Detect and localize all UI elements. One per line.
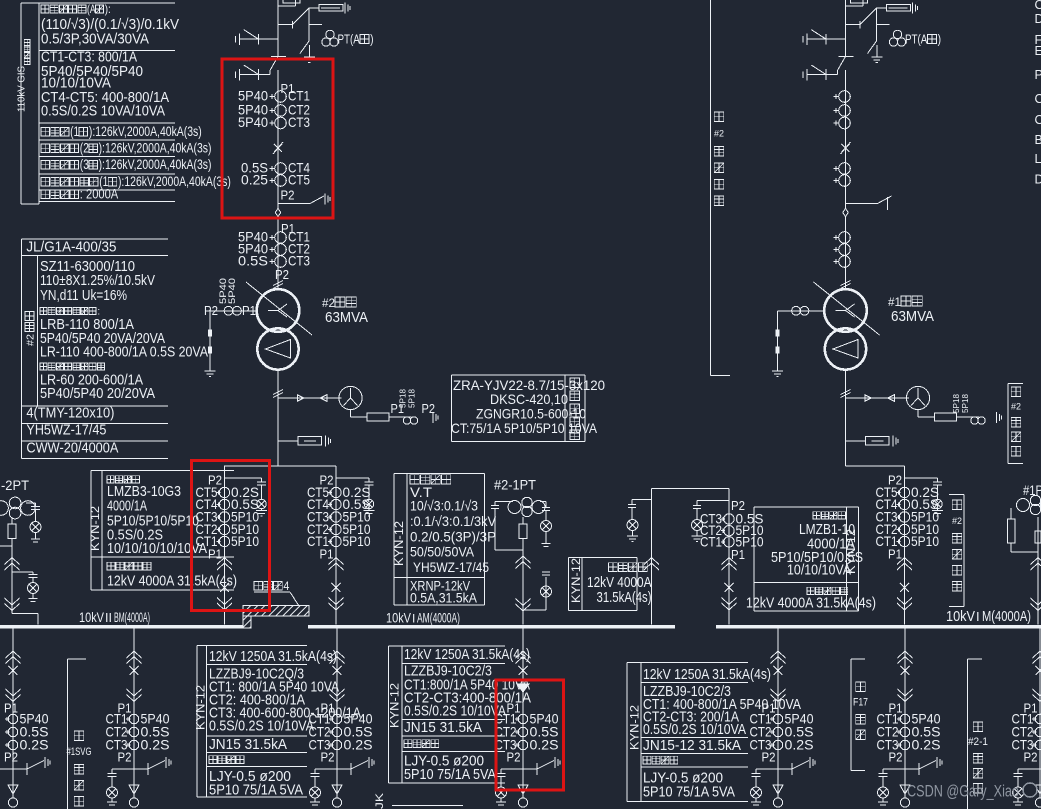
svg-text:5P40: 5P40	[238, 114, 268, 130]
svg-text:PT(A: PT(A	[338, 32, 361, 47]
svg-text::0.1/√3:0.1/3kV: :0.1/√3:0.1/3kV	[410, 513, 497, 529]
svg-text:12kV 1250A 31.5kA(4s): 12kV 1250A 31.5kA(4s)	[209, 649, 337, 665]
svg-text:63MVA: 63MVA	[325, 309, 368, 326]
svg-text:KYN-12: KYN-12	[390, 683, 402, 728]
svg-text:JL/G1A-400/35: JL/G1A-400/35	[26, 240, 116, 256]
svg-text:): )	[370, 32, 373, 47]
svg-text:P: P	[1035, 68, 1041, 82]
svg-text:CT3: CT3	[288, 253, 310, 269]
svg-text::: :	[97, 306, 100, 318]
svg-text:L: L	[1035, 152, 1041, 166]
svg-text:P2: P2	[118, 750, 132, 765]
svg-text:5P40: 5P40	[227, 278, 238, 304]
svg-text:10kV: 10kV	[79, 610, 104, 625]
svg-text:31.5kA(4s): 31.5kA(4s)	[597, 590, 652, 606]
svg-text:(1: (1	[70, 124, 79, 139]
svg-text:#2: #2	[1011, 402, 1021, 412]
svg-text:12kV 4000A 31.5kA(4s): 12kV 4000A 31.5kA(4s)	[746, 596, 876, 612]
svg-text:12kV 1250A 31.5kA(4s): 12kV 1250A 31.5kA(4s)	[404, 647, 530, 663]
svg-text:#2: #2	[25, 334, 37, 346]
svg-text:0.5A,31.5kA: 0.5A,31.5kA	[410, 590, 478, 606]
svg-text:110kV GIS: 110kV GIS	[16, 66, 28, 112]
svg-text:LR-110 400-800/1A 0.5S 20VA: LR-110 400-800/1A 0.5S 20VA	[40, 345, 208, 361]
svg-text:0.5S/0.2S 10VA/10VA: 0.5S/0.2S 10VA/10VA	[41, 103, 165, 119]
svg-text:(3: (3	[80, 157, 89, 172]
svg-text:#1: #1	[888, 295, 901, 309]
svg-text:F17: F17	[853, 697, 868, 709]
svg-text:P1: P1	[320, 547, 334, 562]
svg-text:YH5WZ-17/45: YH5WZ-17/45	[413, 559, 489, 575]
svg-text:-2PT: -2PT	[1, 478, 29, 493]
svg-text:0.5S/0.2S 10/10VA: 0.5S/0.2S 10/10VA	[643, 722, 746, 738]
svg-text:E: E	[1035, 44, 1041, 58]
svg-text:50/50/50VA: 50/50/50VA	[410, 544, 475, 560]
svg-text:0.5S: 0.5S	[238, 253, 268, 269]
svg-text:10/10/10VA: 10/10/10VA	[787, 563, 851, 579]
svg-text:CT3: CT3	[288, 114, 310, 130]
svg-text:5P10 75/1A 5VA: 5P10 75/1A 5VA	[643, 785, 735, 801]
svg-text:0.2S: 0.2S	[912, 737, 941, 753]
svg-text:YH5WZ-17/45: YH5WZ-17/45	[26, 423, 106, 439]
svg-text:BM(4000A): BM(4000A)	[114, 610, 150, 625]
svg-text:B: B	[1035, 133, 1041, 147]
svg-text:P1: P1	[208, 547, 222, 562]
svg-text:P1: P1	[4, 701, 18, 716]
svg-text:4000/1A: 4000/1A	[107, 499, 147, 515]
svg-text:JN15 31.5kA: JN15 31.5kA	[404, 720, 482, 736]
svg-text:10kV: 10kV	[946, 608, 975, 625]
svg-text:5P40/5P40 20/20VA: 5P40/5P40 20/20VA	[40, 386, 155, 402]
svg-text:CT5: CT5	[288, 172, 310, 188]
svg-text:5P18: 5P18	[407, 389, 417, 408]
svg-text:#2-1PT: #2-1PT	[494, 478, 536, 493]
svg-text:P2: P2	[1024, 750, 1038, 765]
svg-text:0.5S/0.2S 10/10VA: 0.5S/0.2S 10/10VA	[209, 719, 314, 735]
svg-text:P2: P2	[4, 750, 18, 765]
svg-text:YN,d11 Uk=16%: YN,d11 Uk=16%	[40, 288, 127, 304]
svg-text:4: 4	[283, 581, 290, 593]
svg-text:P2: P2	[321, 750, 335, 765]
svg-text:5P10: 5P10	[231, 533, 259, 549]
svg-text:CWW-20/4000A: CWW-20/4000A	[26, 441, 118, 457]
svg-text:0.2S: 0.2S	[785, 737, 814, 753]
svg-text:KYN-12: KYN-12	[90, 506, 102, 551]
svg-text:5P10: 5P10	[911, 533, 939, 549]
svg-text:63MVA: 63MVA	[891, 308, 934, 325]
svg-text:0.2S: 0.2S	[530, 737, 559, 753]
svg-text:I: I	[412, 612, 415, 626]
svg-text:):: ):	[105, 2, 111, 16]
svg-text:M(4000A): M(4000A)	[982, 608, 1031, 625]
svg-text:12kV 4000A: 12kV 4000A	[587, 575, 652, 591]
svg-text:):126kV,2000A,40kA(3s): ):126kV,2000A,40kA(3s)	[89, 124, 202, 139]
svg-text:10kV: 10kV	[386, 611, 411, 626]
svg-text:5P10 75/1A 5VA: 5P10 75/1A 5VA	[209, 783, 303, 799]
svg-text:5P10 75/1A 5VA: 5P10 75/1A 5VA	[404, 767, 496, 783]
svg-text:KYN-12: KYN-12	[196, 685, 208, 730]
svg-text:0.2/0.5(3P)/3P: 0.2/0.5(3P)/3P	[410, 529, 496, 545]
svg-text:(2: (2	[80, 141, 89, 156]
svg-text:P1: P1	[731, 547, 745, 562]
svg-text:12kV 1250A 31.5kA(4s): 12kV 1250A 31.5kA(4s)	[643, 667, 771, 683]
svg-text:):126kV,2000A,40kA(3s): ):126kV,2000A,40kA(3s)	[99, 141, 212, 156]
svg-text:5P10: 5P10	[343, 533, 371, 549]
svg-text:): )	[938, 32, 941, 47]
svg-text:: 2000A: : 2000A	[80, 187, 118, 202]
svg-text:JK: JK	[374, 792, 386, 809]
svg-text:C: C	[1035, 92, 1041, 106]
svg-text:JN15-12 31.5kA: JN15-12 31.5kA	[643, 738, 741, 754]
svg-text:JN15 31.5kA: JN15 31.5kA	[209, 737, 287, 753]
svg-text:#2: #2	[714, 129, 724, 139]
svg-text:C: C	[1035, 0, 1041, 12]
svg-text:5P18: 5P18	[960, 394, 970, 413]
svg-text:C: C	[1035, 113, 1041, 127]
svg-text:P2: P2	[507, 750, 521, 765]
svg-text:P1: P1	[888, 547, 902, 562]
svg-text:(A: (A	[87, 2, 96, 16]
svg-text:AM(4000A): AM(4000A)	[417, 611, 460, 626]
svg-text:#2: #2	[952, 516, 962, 526]
svg-text:CSDN @Gary_Xiao: CSDN @Gary_Xiao	[907, 783, 1019, 801]
svg-text:D: D	[1035, 12, 1041, 26]
svg-text:P1: P1	[242, 303, 256, 318]
svg-text:0.2S: 0.2S	[141, 737, 170, 753]
svg-text:D: D	[1035, 173, 1041, 187]
svg-text:P2: P2	[275, 267, 289, 282]
svg-text:4(TMY-120x10): 4(TMY-120x10)	[26, 406, 114, 422]
svg-text:#2-1: #2-1	[968, 736, 988, 748]
svg-text:I: I	[976, 609, 980, 624]
svg-text:0.2S: 0.2S	[20, 737, 49, 753]
svg-text:#1SVG: #1SVG	[67, 746, 92, 758]
svg-text:10/√3:0.1/√3: 10/√3:0.1/√3	[410, 498, 478, 514]
svg-text:#2: #2	[322, 296, 335, 310]
svg-text:12kV 4000A 31.5kA(4s): 12kV 4000A 31.5kA(4s)	[107, 574, 237, 590]
svg-text:):126kV,2000A,40kA(3s): ):126kV,2000A,40kA(3s)	[118, 174, 231, 189]
svg-text:PT(A: PT(A	[905, 32, 928, 47]
svg-text:P2: P2	[281, 188, 295, 203]
svg-text:KYN-12: KYN-12	[630, 705, 642, 750]
svg-text:0.5S/0.2S 10/10VA: 0.5S/0.2S 10/10VA	[404, 704, 506, 720]
svg-text:P2: P2	[204, 303, 218, 318]
svg-text:II: II	[105, 611, 112, 625]
svg-text:CT:75/1A 5P10/5P10 10VA: CT:75/1A 5P10/5P10 10VA	[451, 420, 598, 436]
svg-text:0.2S: 0.2S	[344, 737, 373, 753]
svg-text:KYN-12: KYN-12	[394, 521, 406, 566]
svg-text:P2: P2	[762, 750, 776, 765]
svg-text:KYN-12: KYN-12	[571, 558, 583, 603]
svg-text:):126kV,2000A,40kA(3s): ):126kV,2000A,40kA(3s)	[99, 157, 212, 172]
svg-text:110±8X1.25%/10.5kV: 110±8X1.25%/10.5kV	[40, 273, 155, 289]
svg-text:CT1: CT1	[700, 533, 722, 549]
svg-text:P2: P2	[889, 750, 903, 765]
svg-text:0.5/3P,30VA/30VA: 0.5/3P,30VA/30VA	[41, 32, 149, 48]
svg-text:0.25: 0.25	[241, 172, 268, 188]
